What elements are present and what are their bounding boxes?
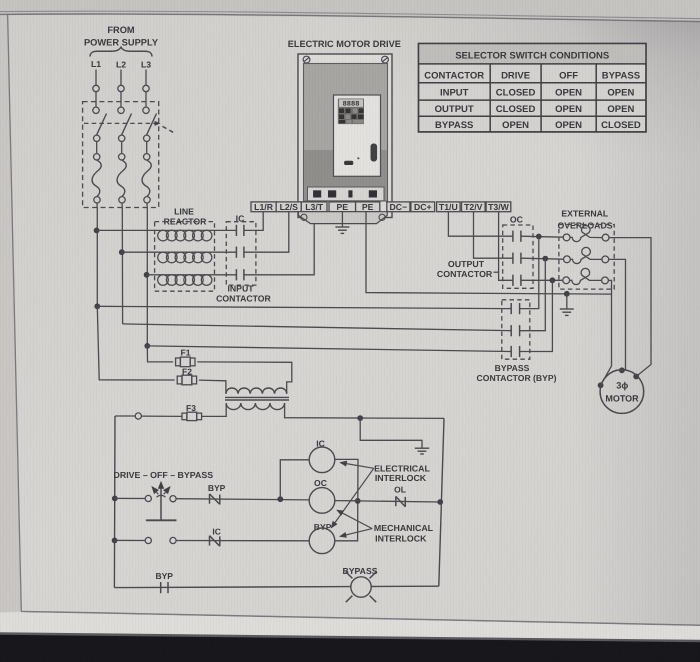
reactor winding 2 bbox=[159, 251, 212, 253]
wire phase2 down bbox=[121, 209, 123, 324]
IC contact bbox=[235, 225, 237, 236]
ground (control) bbox=[415, 447, 429, 449]
diagram frame: top border double line bbox=[0, 11, 700, 18]
wire bbox=[121, 142, 123, 154]
selector operator: stem bbox=[160, 495, 162, 520]
junction ground branch bbox=[357, 415, 363, 421]
terminal L1/R bbox=[251, 202, 276, 212]
BYP contact 1 bbox=[510, 303, 512, 314]
wire L2 drop bbox=[120, 70, 122, 86]
junction coils common bbox=[355, 498, 361, 504]
wire BYP1 up to node bbox=[520, 237, 539, 309]
junction reactor tap 3 bbox=[144, 272, 150, 278]
right rail bbox=[439, 418, 444, 586]
junction rung A right rail bbox=[437, 499, 443, 505]
keypad display cluster bbox=[338, 99, 364, 125]
drive keypad module bbox=[334, 95, 381, 176]
keypad dot bbox=[357, 157, 359, 159]
diagram frame: left border bbox=[8, 14, 22, 612]
BYP contact 2 bbox=[510, 325, 512, 336]
NO contact BYP bbox=[160, 582, 162, 593]
diagram frame: bottom border bbox=[21, 612, 700, 626]
terminal circle L1 upper bbox=[93, 85, 99, 91]
wire exits breaker bbox=[96, 203, 98, 209]
selector operator: arrows bbox=[160, 489, 162, 497]
wire tap1 to reactor bbox=[97, 229, 159, 231]
electrical interlock arrow to IC coil bbox=[341, 463, 374, 469]
wire phase1 to F2 bbox=[97, 306, 174, 380]
breaker pole 3: open blade bbox=[147, 114, 157, 136]
breaker linkage dashed diagonal bbox=[163, 126, 176, 133]
mechanical interlock arrow to BYP coil bbox=[340, 529, 372, 537]
junction reactor tap 1 bbox=[94, 228, 100, 234]
keypad display 8888 bbox=[339, 99, 363, 107]
drive terminal block bbox=[313, 190, 321, 197]
keypad bottom pill bbox=[344, 161, 353, 165]
table: selector switch conditions bbox=[419, 44, 647, 132]
junction rung B on rail bbox=[112, 538, 118, 544]
BYP contact 3 bbox=[510, 346, 512, 357]
wire T1/U to OC bbox=[448, 212, 513, 237]
breaker pole 2: open blade bbox=[122, 114, 132, 136]
overload OL1 bbox=[563, 234, 570, 241]
motor M1 bbox=[600, 370, 644, 414]
terminal L3/T bbox=[301, 202, 327, 212]
transformer core bbox=[225, 396, 289, 398]
wire reactor to IC bbox=[211, 274, 236, 276]
mechanical interlock arrow to OC coil bbox=[337, 510, 372, 528]
wire OL1 to motor bbox=[609, 238, 651, 377]
IC contact bbox=[235, 269, 237, 280]
lamp ray bbox=[346, 572, 353, 579]
dashed enclosure: bypass contactor bbox=[502, 300, 530, 359]
drive terminal block bbox=[348, 190, 352, 197]
pilot lamp BYPASS bbox=[351, 577, 371, 597]
selector operator: base bar bbox=[146, 519, 177, 521]
wire to left rail bbox=[115, 415, 135, 417]
ground PE1 bbox=[335, 226, 349, 228]
selector operator: arc bbox=[157, 495, 166, 497]
flange screw right bbox=[379, 214, 385, 220]
wire reactor to IC bbox=[211, 251, 236, 253]
wire F2 out bbox=[199, 380, 226, 394]
wire bbox=[146, 142, 148, 154]
breaker pole 2: thermal S-element bbox=[117, 160, 126, 196]
terminal T2/V bbox=[462, 202, 486, 212]
wire X1 up to IC coil bbox=[280, 460, 309, 499]
transformer T1 secondary bbox=[226, 403, 284, 410]
junction reactor tap 2 bbox=[119, 249, 125, 255]
transformer T1 primary bbox=[226, 388, 287, 394]
coil OC bbox=[309, 488, 335, 514]
keypad side slot bbox=[371, 144, 377, 161]
terminal circle on control rail bbox=[135, 413, 141, 419]
wire phase3 to F1 bbox=[147, 346, 173, 362]
dashed enclosure: output contactor bbox=[503, 225, 533, 288]
overload OL3 bbox=[563, 277, 570, 284]
junction OC1/BYP1 bbox=[536, 234, 542, 240]
dashed enclosure: input contactor bbox=[226, 222, 256, 285]
wire bbox=[96, 142, 98, 154]
keypad buttons bbox=[339, 109, 344, 114]
drive bottom terminal strip bbox=[308, 187, 385, 201]
NC contact BYP bbox=[209, 494, 211, 504]
ground (PE run) bbox=[560, 308, 574, 310]
wire PE1 to ground bbox=[341, 212, 343, 227]
selector contact A right bbox=[170, 496, 176, 502]
bottom rail (left of lamp) bbox=[114, 587, 351, 588]
wire to control ground bbox=[360, 418, 422, 448]
left rail bbox=[113, 416, 116, 588]
motor terminal 2 bbox=[619, 367, 625, 373]
breaker pole 2: top contact circle bbox=[118, 107, 124, 113]
drive corner screw right bbox=[382, 56, 389, 63]
junction rung A on rail bbox=[112, 496, 118, 502]
selector contact B right bbox=[170, 537, 176, 543]
dashed enclosure: external overloads bbox=[559, 225, 614, 290]
flange screw left bbox=[301, 214, 307, 220]
breaker pole 1: top contact circle bbox=[93, 107, 99, 113]
bottom rail (right of lamp) bbox=[371, 585, 439, 587]
NC contact IC bbox=[209, 536, 211, 546]
breaker pole 3: mid circle bbox=[144, 135, 150, 141]
reactor winding 3 bbox=[159, 274, 212, 276]
wire IC to L1/R bbox=[244, 212, 263, 231]
bypass feed wire 3 bbox=[147, 346, 511, 352]
rung B wire to BYP coil bbox=[176, 540, 309, 542]
junction OC3/BYP3 bbox=[550, 277, 556, 283]
breaker pole 1: mid circle bbox=[94, 135, 100, 141]
wire IC to L2/S bbox=[244, 212, 289, 253]
wire OC2 out bbox=[521, 258, 564, 259]
selector contact B left bbox=[145, 537, 151, 543]
OC contact bbox=[512, 231, 514, 242]
wire IC to L3/T bbox=[244, 212, 314, 275]
drive U1: outer case bbox=[298, 54, 392, 218]
breaker linkage dashed bar bbox=[84, 122, 155, 124]
junction phase1 / bypass feed 1 bbox=[94, 303, 100, 309]
drive terminal block bbox=[369, 190, 377, 197]
lamp ray bbox=[370, 596, 377, 603]
wire F3 to rail bbox=[141, 415, 182, 417]
drive corner screw left bbox=[303, 56, 310, 63]
electrical interlock arrow to BYP coil bbox=[332, 468, 374, 527]
breaker pole 3: thermal S-element bbox=[142, 160, 151, 196]
wire reactor to IC bbox=[211, 229, 236, 231]
bypass feed wire 2 bbox=[123, 324, 512, 331]
wire BYP2 up to node bbox=[520, 259, 546, 331]
wire BYP3 up to node bbox=[520, 280, 553, 351]
wire bbox=[120, 92, 122, 107]
dark screen-edge band at bottom bbox=[0, 632, 700, 642]
breaker pole 2: bottom circle bbox=[119, 197, 125, 203]
IC contact bbox=[235, 247, 237, 258]
overload OL2 bbox=[564, 256, 571, 263]
OC contact bbox=[512, 253, 514, 264]
OC contact bbox=[512, 275, 514, 286]
motor terminal 1 bbox=[633, 374, 639, 380]
dashed enclosure: line reactor bbox=[155, 222, 215, 292]
junction OC2/BYP2 bbox=[542, 256, 548, 262]
wire OL3 to motor bbox=[601, 280, 612, 385]
terminal circle L2 upper bbox=[118, 85, 124, 91]
wire bbox=[145, 92, 147, 107]
brace over L1 L2 L3 bbox=[90, 47, 152, 56]
wire L3 drop bbox=[145, 70, 147, 86]
drive lower darker zone bbox=[304, 150, 387, 200]
wire L1 drop bbox=[95, 70, 97, 86]
leader bbox=[494, 271, 499, 273]
coil IC bbox=[309, 447, 335, 473]
junction node X1 bbox=[277, 496, 283, 502]
bright strip below frame bbox=[0, 612, 700, 640]
margin left of frame bbox=[0, 14, 22, 613]
terminal DC&#8722; bbox=[387, 202, 410, 212]
wire ground stub bbox=[566, 294, 568, 309]
wire T3/W to OC bbox=[499, 212, 513, 281]
wire tap2 to reactor bbox=[122, 251, 159, 253]
terminal L2/S bbox=[276, 202, 301, 212]
terminal PE bbox=[356, 202, 380, 212]
rung A wire through BYP NC bbox=[176, 499, 309, 500]
drive inner gray panel bbox=[304, 64, 388, 202]
wire IC coil right bbox=[335, 459, 358, 540]
wire secondary right / control top rail bbox=[285, 403, 444, 418]
wire OC1 out bbox=[521, 236, 563, 237]
terminal T1/U bbox=[437, 202, 461, 212]
breaker pole 3: bottom circle bbox=[144, 197, 150, 203]
rung A wire to OL and rail bbox=[358, 501, 441, 502]
wire phase1 down bbox=[96, 209, 98, 306]
wire tap3 to reactor bbox=[147, 274, 159, 276]
breaker pole 1: bottom circle bbox=[94, 197, 100, 203]
dashed enclosure: disconnect/breaker bbox=[83, 102, 159, 208]
junction phase3 / bypass feed 3 bbox=[144, 343, 150, 349]
breaker pole 3: circle above thermal bbox=[144, 154, 150, 160]
wire OC coil right bbox=[335, 500, 358, 502]
coil BYP bbox=[309, 528, 335, 554]
wire T2/V to OC bbox=[474, 212, 513, 259]
wire OL2 to motor bbox=[609, 259, 626, 371]
terminal DC+ bbox=[411, 202, 435, 212]
drive terminal block bbox=[328, 190, 336, 197]
bypass feed wire 1 bbox=[97, 306, 511, 308]
breaker pole 1: thermal S-element bbox=[92, 160, 101, 196]
terminal PE bbox=[329, 202, 356, 212]
breaker pole 1: open blade bbox=[97, 114, 107, 136]
wire F1 to transformer primary bbox=[197, 362, 291, 394]
terminal circle L3 upper bbox=[143, 85, 149, 91]
wire secondary left to F3 bbox=[202, 403, 227, 416]
breaker pole 1: circle above thermal bbox=[94, 154, 100, 160]
motor terminal 3 bbox=[598, 382, 604, 388]
junction PE ground tap bbox=[564, 291, 570, 297]
margin above frame bbox=[0, 0, 700, 21]
selector contact A left bbox=[145, 495, 151, 501]
lamp ray bbox=[370, 572, 377, 579]
wire bbox=[95, 92, 97, 107]
breaker pole 3: top contact circle bbox=[143, 107, 149, 113]
rung B wire bbox=[115, 539, 146, 541]
breaker pole 2: circle above thermal bbox=[119, 154, 125, 160]
lamp ray bbox=[346, 596, 353, 603]
breaker pole 2: mid circle bbox=[119, 135, 125, 141]
wire OC3 out bbox=[521, 279, 563, 281]
terminal T3/W bbox=[486, 202, 511, 212]
rung A wire bbox=[115, 497, 145, 499]
wire PE2 to motor frame bbox=[366, 212, 612, 294]
wire exits breaker bbox=[146, 203, 148, 209]
NC contact OL bbox=[395, 496, 397, 506]
wire exits breaker bbox=[121, 203, 123, 209]
wire phase3 down bbox=[146, 209, 148, 346]
drive mounting flange bbox=[298, 212, 387, 224]
